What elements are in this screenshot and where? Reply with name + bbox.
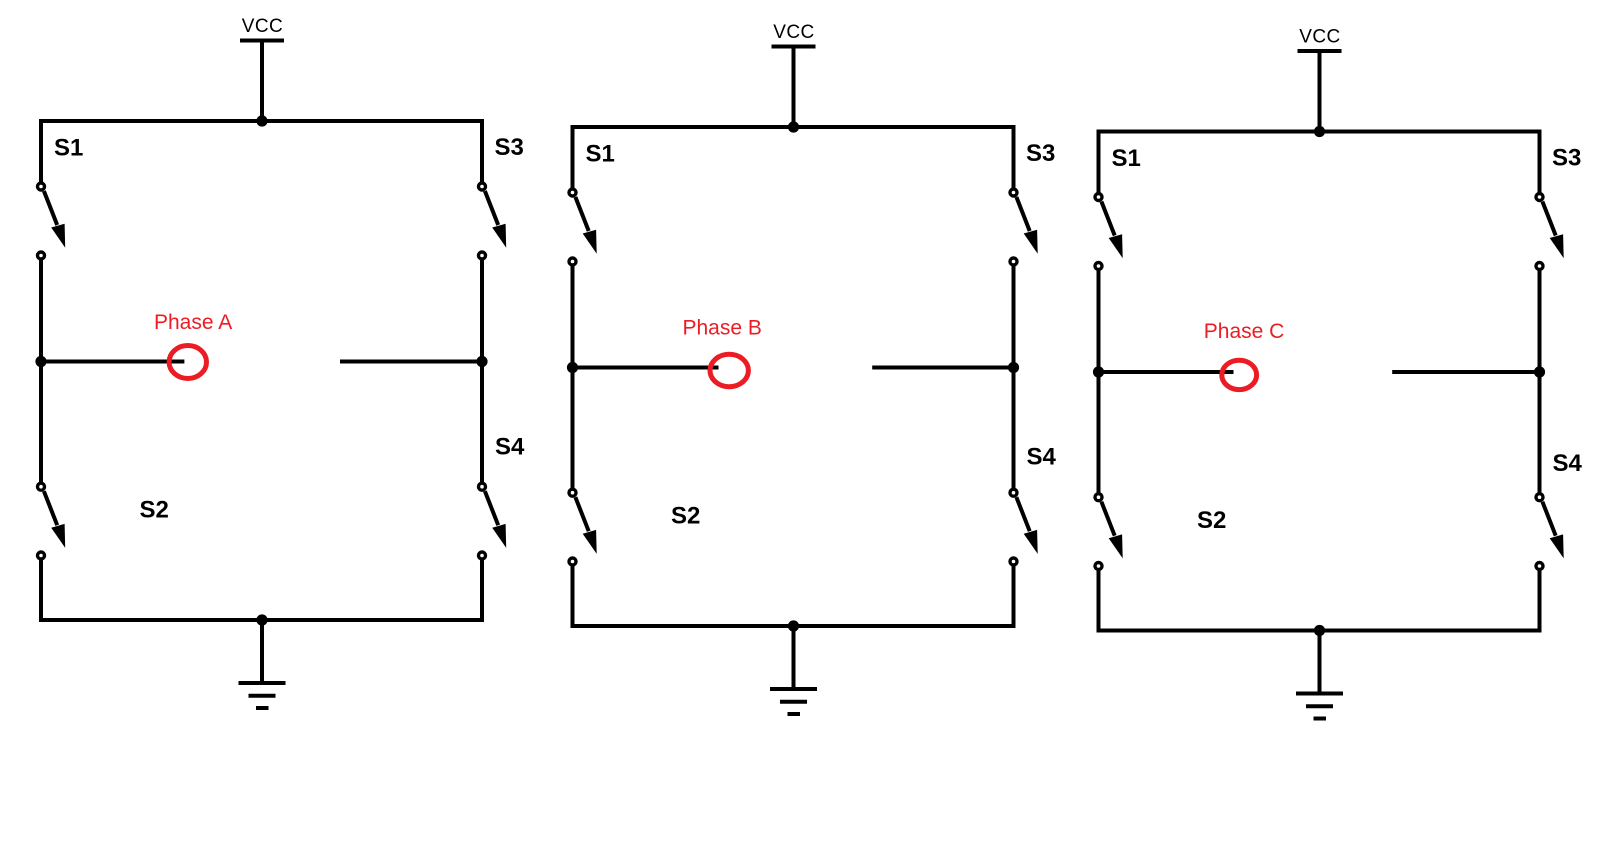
junction: phase B output node dot (left) [567, 362, 578, 373]
wire: right rail from S3 to node (phase C) [1538, 270, 1542, 372]
junction: right rail node dot (phase C) [1534, 366, 1545, 377]
switch S1 (phase B): bottom terminal [569, 258, 576, 265]
switch S1 (phase A): top terminal [38, 183, 45, 190]
wire: right rail upper segment (phase C) [1538, 130, 1542, 194]
wire: ground stem (phase A) [260, 620, 264, 683]
svg-text:S4: S4 [495, 434, 525, 461]
wire: VCC stem (phase B) [792, 48, 796, 129]
wire: left rail upper segment (phase B) [571, 125, 575, 189]
switch S3 (phase C): bottom terminal [1536, 263, 1543, 270]
wire: left rail from phase node to S2 (phase C) [1097, 372, 1101, 493]
switch S1 (phase A): bottom terminal [38, 252, 45, 259]
svg-text:VCC: VCC [242, 16, 283, 37]
wire: left rail from phase node to S2 (phase B) [571, 368, 575, 489]
wire: load stub to right rail (phase A) [340, 360, 482, 364]
wire: right rail upper segment (phase A) [480, 119, 484, 183]
wire: ground stem (phase C) [1318, 631, 1322, 694]
svg-text:VCC: VCC [773, 22, 814, 43]
power symbol VCC bar (phase B) [772, 45, 816, 49]
wire: top bus (phase A) [39, 119, 484, 123]
highlight: red ellipse marking phase C output node [1222, 360, 1257, 389]
switch S2 (phase A): top terminal [38, 483, 45, 490]
wire: bottom bus (phase B) [571, 624, 1016, 628]
junction: phase C output node dot (left) [1093, 366, 1104, 377]
wire: phase A output stub [41, 360, 184, 364]
switch S2 (phase B): bottom terminal [569, 558, 576, 565]
H-bridge phase C [1093, 27, 1583, 719]
ground symbol (phase C): top bar [1296, 692, 1343, 696]
switch S1 (phase B): top terminal [569, 189, 576, 196]
svg-text:S4: S4 [1027, 444, 1057, 471]
switch S1 (phase A): blade with arrowhead [44, 191, 65, 248]
junction: ground node dot (phase B) [788, 620, 799, 631]
ground symbol (phase C): bottom bar [1314, 717, 1327, 721]
junction: phase A output node dot (left) [35, 356, 46, 367]
svg-text:Phase C: Phase C [1204, 320, 1285, 343]
switch S3 (phase B): blade with arrowhead [1016, 197, 1037, 254]
wire: top bus (phase B) [571, 125, 1016, 129]
wire: phase B output stub [573, 366, 719, 370]
power symbol VCC bar (phase C) [1298, 49, 1342, 53]
wire: VCC stem (phase A) [260, 42, 264, 123]
svg-text:S2: S2 [1197, 507, 1226, 534]
wire: left rail from phase node to S2 (phase A) [39, 362, 43, 483]
ground symbol (phase B): middle bar [780, 700, 807, 704]
switch S2 (phase C): top terminal [1095, 494, 1102, 501]
switch S1 (phase C): top terminal [1095, 194, 1102, 201]
wire: right rail upper segment (phase B) [1012, 125, 1016, 189]
switch S1 (phase C): blade with arrowhead [1101, 202, 1122, 259]
switch S4 (phase A): bottom terminal [479, 552, 486, 559]
switch S2 (phase B): top terminal [569, 489, 576, 496]
switch S3 (phase C): blade with arrowhead [1542, 202, 1563, 259]
wire: load stub to right rail (phase B) [872, 366, 1013, 370]
switch S3 (phase C): top terminal [1536, 194, 1543, 201]
switch S3 (phase A): bottom terminal [479, 252, 486, 259]
wire: left rail lower segment (phase B) [571, 566, 575, 629]
svg-text:S3: S3 [495, 134, 524, 161]
svg-text:S1: S1 [1112, 145, 1141, 172]
switch S4 (phase C): bottom terminal [1536, 563, 1543, 570]
highlight: red ellipse marking phase B output node [710, 354, 748, 386]
wire: right rail lower segment (phase B) [1012, 566, 1016, 629]
switch S4 (phase A): blade with arrowhead [485, 491, 506, 548]
switch S3 (phase B): top terminal [1010, 189, 1017, 196]
svg-text:VCC: VCC [1299, 27, 1340, 48]
switch S2 (phase A): bottom terminal [38, 552, 45, 559]
switch S2 (phase B): blade with arrowhead [575, 497, 596, 554]
svg-text:S3: S3 [1026, 140, 1055, 167]
junction: VCC node dot (phase B) [788, 121, 799, 132]
switch S4 (phase C): blade with arrowhead [1542, 502, 1563, 559]
wire: top bus (phase C) [1097, 130, 1542, 134]
svg-text:S4: S4 [1553, 450, 1583, 477]
switch S3 (phase A): top terminal [479, 183, 486, 190]
wire: right rail from node to S4 (phase C) [1538, 372, 1542, 493]
switch S3 (phase B): bottom terminal [1010, 258, 1017, 265]
highlight: red ellipse marking phase A output node [169, 346, 206, 379]
switch S4 (phase B): bottom terminal [1010, 558, 1017, 565]
wire: right rail lower segment (phase A) [480, 560, 484, 623]
ground symbol (phase A): top bar [239, 681, 286, 685]
ground symbol (phase B): top bar [770, 687, 817, 691]
wire: VCC stem (phase C) [1318, 53, 1322, 134]
ground symbol (phase A): middle bar [249, 694, 276, 698]
wire: left rail upper segment (phase C) [1097, 130, 1101, 194]
wire: load stub to right rail (phase C) [1392, 370, 1539, 374]
wire: bottom bus (phase C) [1097, 629, 1542, 633]
power symbol VCC bar (phase A) [240, 39, 284, 43]
junction: ground node dot (phase C) [1314, 625, 1325, 636]
wire: left rail lower segment (phase C) [1097, 570, 1101, 633]
svg-text:S3: S3 [1552, 145, 1581, 172]
switch S3 (phase A): blade with arrowhead [485, 191, 506, 248]
wire: left rail lower segment (phase A) [39, 560, 43, 623]
wire: left rail from S1 to phase node (phase A) [39, 260, 43, 362]
H-bridge phase B [567, 22, 1057, 714]
wire: right rail from S3 to node (phase A) [480, 260, 484, 362]
junction: VCC node dot (phase C) [1314, 126, 1325, 137]
ground symbol (phase C): middle bar [1306, 704, 1333, 708]
switch S4 (phase A): top terminal [479, 483, 486, 490]
junction: ground node dot (phase A) [256, 614, 267, 625]
wire: left rail from S1 to phase node (phase C) [1097, 270, 1101, 372]
svg-text:S1: S1 [54, 135, 83, 162]
wire: right rail from node to S4 (phase A) [480, 362, 484, 483]
svg-text:Phase B: Phase B [683, 317, 762, 340]
switch S2 (phase A): blade with arrowhead [44, 491, 65, 548]
switch S4 (phase C): top terminal [1536, 494, 1543, 501]
junction: right rail node dot (phase A) [476, 356, 487, 367]
wire: phase C output stub [1099, 370, 1234, 374]
switch S4 (phase B): blade with arrowhead [1016, 497, 1037, 554]
wire: left rail upper segment (phase A) [39, 119, 43, 183]
svg-text:Phase A: Phase A [154, 311, 232, 334]
ground symbol (phase B): bottom bar [788, 712, 801, 716]
wire: right rail lower segment (phase C) [1538, 570, 1542, 633]
switch S4 (phase B): top terminal [1010, 489, 1017, 496]
svg-text:S1: S1 [586, 141, 615, 168]
switch S1 (phase C): bottom terminal [1095, 263, 1102, 270]
svg-text:S2: S2 [140, 496, 169, 523]
svg-text:S2: S2 [671, 502, 700, 529]
H-bridge phase A [35, 16, 525, 708]
switch S2 (phase C): blade with arrowhead [1101, 502, 1122, 559]
ground symbol (phase A): bottom bar [256, 706, 269, 710]
switch S1 (phase B): blade with arrowhead [575, 197, 596, 254]
switch S2 (phase C): bottom terminal [1095, 563, 1102, 570]
wire: left rail from S1 to phase node (phase B) [571, 266, 575, 368]
wire: ground stem (phase B) [792, 626, 796, 689]
wire: right rail from S3 to node (phase B) [1012, 266, 1016, 368]
wire: bottom bus (phase A) [39, 618, 484, 622]
wire: right rail from node to S4 (phase B) [1012, 368, 1016, 489]
junction: right rail node dot (phase B) [1008, 362, 1019, 373]
junction: VCC node dot (phase A) [256, 115, 267, 126]
